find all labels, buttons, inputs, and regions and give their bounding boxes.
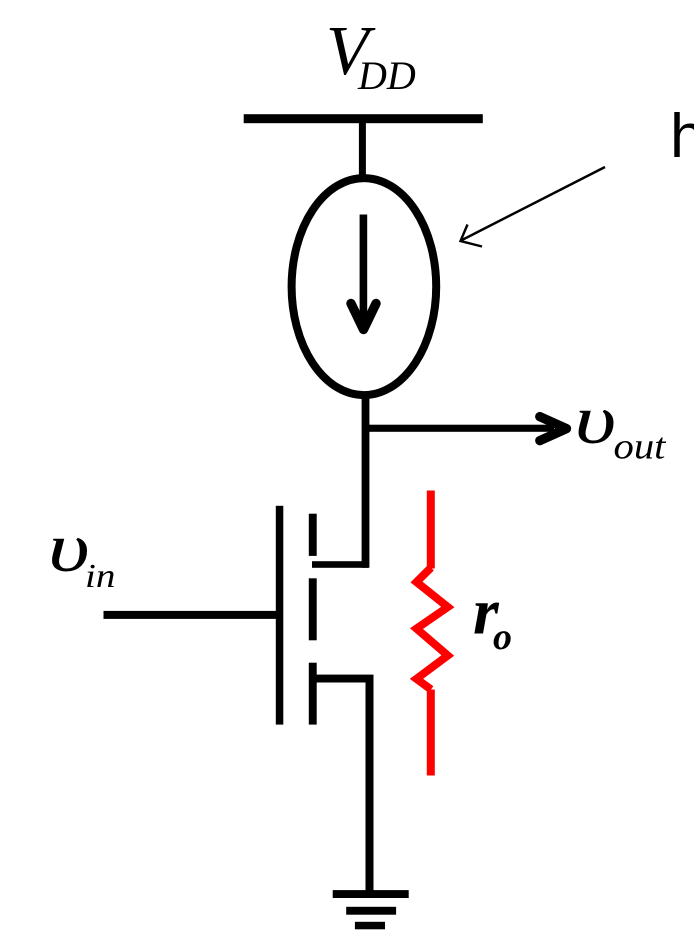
label r_o bbox=[473, 576, 512, 658]
svg-text:out: out bbox=[614, 426, 667, 467]
svg-text:υ: υ bbox=[48, 509, 90, 587]
transistor M1 gate bar bbox=[276, 506, 284, 725]
svg-text:in: in bbox=[85, 556, 115, 594]
svg-text:υ: υ bbox=[575, 381, 617, 459]
wire rail to current source bbox=[359, 121, 366, 177]
power rail VDD bbox=[244, 114, 483, 123]
label v_in bbox=[48, 509, 115, 595]
current source I1 arrow bbox=[351, 215, 376, 330]
svg-text:o: o bbox=[493, 616, 512, 658]
transistor M1 drain connection bbox=[312, 561, 368, 568]
label VDD bbox=[326, 13, 416, 98]
wire source to ground bbox=[366, 679, 374, 895]
resistor r_o bottom lead bbox=[427, 690, 435, 776]
ground symbol bbox=[333, 890, 409, 929]
wire current source to drain bbox=[362, 395, 370, 568]
resistor r_o top lead bbox=[427, 491, 435, 569]
transistor M1 channel dash source-segment bbox=[309, 663, 317, 725]
annotation pointer arrow bbox=[461, 167, 606, 247]
wire gate input bbox=[104, 611, 277, 619]
output arrow bbox=[366, 417, 567, 441]
svg-text:DD: DD bbox=[357, 53, 416, 98]
transistor M1 channel dash drain-segment bbox=[309, 514, 317, 556]
svg-text:h: h bbox=[670, 102, 694, 171]
transistor M1 source connection bbox=[313, 675, 374, 683]
transistor M1 channel dash gate-segment bbox=[309, 578, 317, 640]
current source I1 ellipse bbox=[292, 178, 437, 395]
resistor r_o zigzag bbox=[417, 568, 448, 690]
label v_out bbox=[575, 381, 667, 467]
